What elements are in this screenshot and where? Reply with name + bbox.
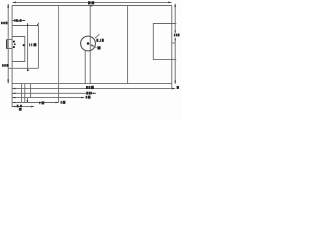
short vertical extension below centre circle: [84, 51, 86, 84]
junction smudge at halfway/top edge: [90, 5, 93, 7]
bottom dimension line L1 (full length): [12, 88, 175, 90]
left goal area: [12, 37, 25, 62]
leader with down arrow in stack: [27, 98, 29, 103]
extension line x=58.5: [58, 84, 60, 103]
extension of right field edge: [171, 84, 173, 90]
radius label units: [97, 46, 100, 49]
L4 mid label: [39, 101, 44, 104]
goal line midpoint dot: [14, 43, 16, 45]
bottom dimension line L4: [12, 102, 59, 104]
radius leader tick: [95, 34, 100, 38]
L5 label on line: [17, 105, 22, 108]
halfway line: [89, 6, 91, 84]
goal post dot upper: [13, 41, 15, 43]
bottom stack: extension of left field edge: [11, 84, 13, 108]
top dimension label: [88, 1, 94, 4]
L1 label: [86, 86, 94, 89]
diagonal leader arrow to penalty corner: [37, 23, 39, 27]
penalty distance label 11米: [29, 43, 36, 46]
left width label upper: [1, 22, 8, 25]
centre circle: [81, 36, 96, 51]
leader line for 11m dimension: [27, 23, 29, 70]
bottom dimension line L3: [12, 97, 84, 99]
goal area dimension label 16.5: [14, 19, 21, 22]
left penalty area top edge: [12, 25, 38, 27]
goal area dimension 16.5 line: [12, 20, 25, 21]
interior vertical line (right zone boundary): [127, 6, 129, 84]
left penalty area bottom edge: [8, 67, 38, 69]
right height dimension line: [174, 4, 176, 85]
small tick between goal line and dim line: [172, 42, 175, 44]
radius label 9.15: [96, 39, 103, 42]
bottom dimension line L5: [12, 106, 34, 108]
leader end dot: [27, 69, 29, 71]
extension line x=21.8: [21, 84, 23, 103]
goal post dot lower: [13, 46, 15, 48]
extension line x=25.3: [24, 84, 26, 103]
L2 label: [86, 92, 92, 95]
left width dimension line: [7, 4, 9, 84]
centre spot: [87, 42, 90, 45]
L3 label: [86, 96, 91, 99]
goal box (left, outside field): [7, 40, 12, 49]
radius arrow to centre: [91, 44, 97, 47]
extension line x=30.8: [30, 84, 32, 98]
penalty spot: [23, 44, 25, 46]
bottom dimension line L2: [12, 93, 96, 95]
field outline: [12, 6, 172, 84]
interior vertical line (left zone boundary): [58, 6, 60, 84]
L4 label: [61, 101, 66, 104]
right dimension label: [174, 34, 180, 37]
L5 label below: [19, 108, 22, 111]
left penalty area right edge: [37, 26, 39, 69]
right goal area: [153, 24, 176, 60]
left width label lower: [2, 64, 9, 67]
L1 right unit label: [177, 86, 179, 89]
top dimension line (field length): [13, 2, 172, 4]
